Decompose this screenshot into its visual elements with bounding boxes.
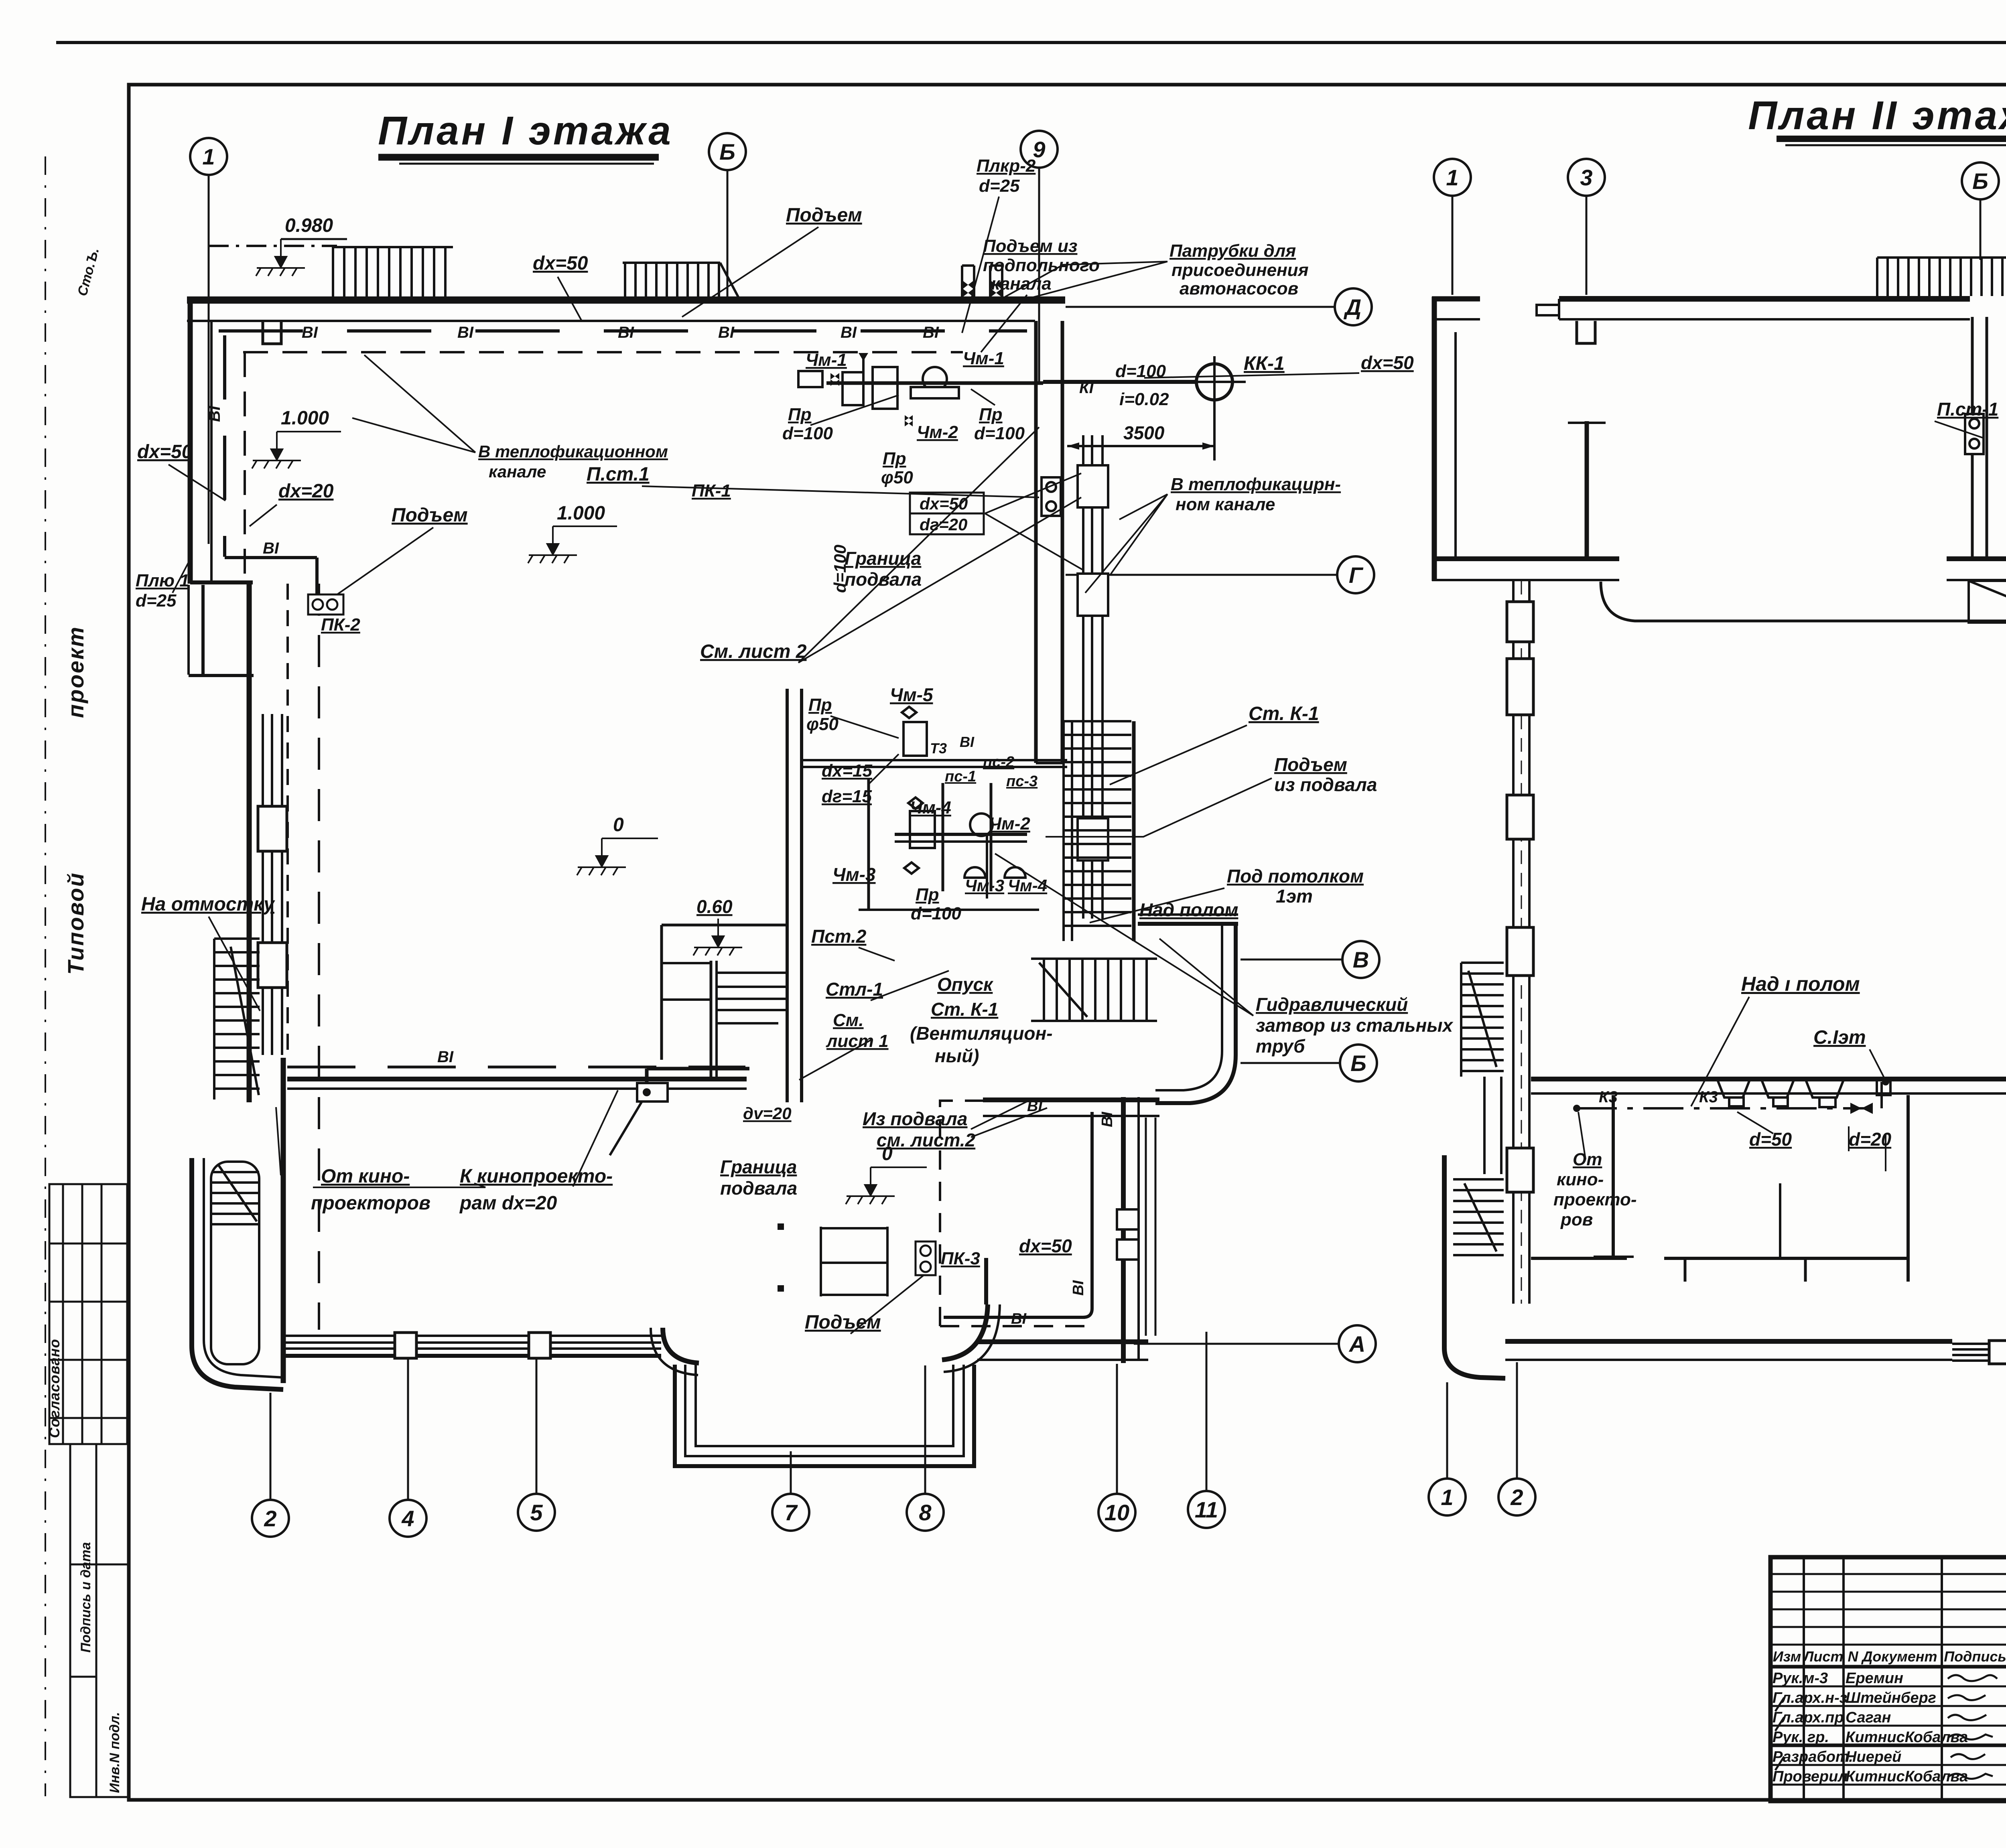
- svg-text:От кино-: От кино-: [321, 1166, 410, 1187]
- pump cluster upper: [798, 353, 1043, 426]
- upper-right block east double wall: [1034, 321, 1038, 763]
- svg-text:дv=20: дv=20: [743, 1104, 792, 1123]
- П.ст.1 fixture: [1042, 477, 1061, 516]
- svg-text:Над полом: Над полом: [1139, 899, 1238, 920]
- svg-text:1: 1: [1446, 165, 1458, 190]
- Т3 riser pipes: [1083, 435, 1102, 919]
- svg-text:Чм-5: Чм-5: [890, 684, 934, 705]
- svg-text:ВІ: ВІ: [1027, 1098, 1043, 1115]
- svg-text:10: 10: [1105, 1500, 1129, 1525]
- ВІ riser left: [223, 335, 226, 557]
- svg-text:Подпись и дата: Подпись и дата: [78, 1542, 93, 1653]
- east facade window column bottom: [1145, 1118, 1147, 1336]
- svg-text:11: 11: [1195, 1497, 1218, 1522]
- svg-text:В теплофикационном: В теплофикационном: [478, 442, 668, 461]
- axis 3 right plan top: [1568, 159, 1605, 196]
- svg-text:Типовой: Типовой: [63, 872, 88, 975]
- svg-text:Подъем: Подъем: [392, 505, 468, 526]
- left table verticals: [1804, 1557, 2006, 1801]
- svg-text:затвор из стальных: затвор из стальных: [1256, 1015, 1454, 1036]
- porch rounded corner right: [942, 1304, 988, 1360]
- svg-text:Гидравлический: Гидравлический: [1256, 994, 1408, 1015]
- signature rows: [1773, 1670, 1968, 1785]
- west wall upper: [1432, 297, 1437, 581]
- west external stair upper flight: [1461, 963, 1504, 1077]
- upper-left room south wall: [1432, 556, 1619, 561]
- svg-text:ров: ров: [1560, 1210, 1593, 1229]
- svg-text:d=100: d=100: [830, 545, 849, 593]
- svg-text:ВІ: ВІ: [960, 734, 975, 750]
- svg-text:Рук.м-3: Рук.м-3: [1773, 1670, 1828, 1687]
- svg-text:Проверил: Проверил: [1773, 1768, 1848, 1785]
- svg-text:φ50: φ50: [881, 468, 913, 487]
- svg-text:Пр: Пр: [788, 405, 812, 424]
- auditorium south wall: [287, 1077, 747, 1081]
- svg-text:пс-1: пс-1: [945, 768, 976, 785]
- big room rounded corner + north boundary: [1601, 582, 2006, 621]
- svg-text:dх=20: dх=20: [278, 481, 334, 502]
- svg-text:d=100: d=100: [974, 424, 1025, 443]
- west external stair side wall: [1444, 1155, 1505, 1378]
- room partitions horizontal: [1531, 1257, 1627, 1260]
- К3 pipe dash-dot: [1577, 1107, 1865, 1110]
- svg-text:рам dх=20: рам dх=20: [459, 1193, 557, 1214]
- svg-text:Подъем: Подъем: [805, 1312, 881, 1333]
- axis labels: [202, 137, 2006, 1531]
- svg-text:Т3: Т3: [930, 740, 947, 757]
- svg-text:d=25: d=25: [979, 176, 1020, 196]
- svg-text:Согласовано: Согласовано: [46, 1339, 63, 1438]
- svg-text:проект: проект: [63, 626, 88, 718]
- svg-text:1: 1: [202, 144, 215, 169]
- partition below mid wall: [1612, 1095, 1615, 1258]
- axis 9 left plan top: [1021, 131, 1058, 168]
- svg-text:Лист: Лист: [1803, 1648, 1844, 1665]
- svg-text:труб: труб: [1256, 1036, 1306, 1057]
- left margin stamp block B: [70, 1444, 129, 1797]
- svg-text:автонасосов: автонасосов: [1180, 279, 1298, 298]
- pump connection stubs above wall: [962, 266, 1002, 298]
- external stair lower flight hatch: [212, 1165, 259, 1224]
- interior wall between auditorium and tech rooms: [786, 689, 789, 1102]
- ВІ pipe bottom of compartment: [647, 1069, 749, 1085]
- svg-text:Подъем: Подъем: [1274, 754, 1347, 775]
- svg-text:Изм: Изм: [1773, 1648, 1801, 1665]
- top wall main segment: [1559, 296, 1970, 302]
- svg-text:Чм-1: Чм-1: [806, 350, 847, 370]
- right rooms north wall: [983, 1097, 1159, 1102]
- svg-text:ПК-3: ПК-3: [941, 1249, 980, 1268]
- svg-text:Над ı полом: Над ı полом: [1741, 973, 1860, 995]
- svg-text:0.980: 0.980: [285, 215, 333, 236]
- svg-text:dх=15: dх=15: [822, 761, 873, 781]
- svg-text:Рук. гр.: Рук. гр.: [1773, 1729, 1829, 1746]
- wall below central: [1947, 556, 2006, 561]
- axis 2 left plan bottom: [252, 1500, 289, 1537]
- svg-text:К кинопроекто-: К кинопроекто-: [460, 1166, 613, 1187]
- top-left exterior wall: [188, 297, 193, 584]
- svg-text:На отмостку: На отмостку: [141, 894, 275, 915]
- svg-text:План I этажа: План I этажа: [378, 108, 673, 153]
- stair hatch top-left: [332, 247, 453, 297]
- svg-text:d=100: d=100: [782, 424, 833, 443]
- svg-text:ном канале: ном канале: [1176, 495, 1275, 514]
- svg-text:Опуск: Опуск: [937, 974, 994, 995]
- svg-text:Ст. К-1: Ст. К-1: [1249, 703, 1319, 724]
- svg-text:КК-1: КК-1: [1244, 353, 1285, 374]
- svg-text:Граница: Граница: [720, 1156, 797, 1177]
- pipes across tech room: [802, 759, 1067, 761]
- top exterior wall: [187, 296, 1065, 304]
- svg-text:присоединения: присоединения: [1172, 260, 1309, 280]
- svg-text:0.60: 0.60: [696, 896, 733, 917]
- sink fixtures on mid wall: [1717, 1079, 1890, 1107]
- svg-text:Инв.N подл.: Инв.N подл.: [107, 1712, 122, 1793]
- axis 11 left plan bottom: [1188, 1491, 1225, 1528]
- stair hatch top-middle: [623, 262, 738, 297]
- stage stair compartment: [662, 925, 786, 1079]
- external stair upper flight: [214, 939, 260, 1099]
- svg-text:i=0.02: i=0.02: [1119, 389, 1169, 409]
- svg-text:См. лист 2: См. лист 2: [700, 641, 807, 662]
- svg-text:0: 0: [613, 814, 624, 836]
- svg-text:Г: Г: [1349, 562, 1364, 588]
- svg-text:Еремин: Еремин: [1846, 1670, 1903, 1687]
- stairwell block with diagonal: [1969, 581, 2006, 623]
- stair mid rails: [1483, 1077, 1486, 1174]
- axis Б right plan top: [1962, 162, 1999, 199]
- svg-text:Плкр-2: Плкр-2: [977, 156, 1036, 176]
- tech fixtures cluster: [895, 707, 1027, 899]
- svg-text:7: 7: [784, 1500, 798, 1525]
- KK-1 well: [1196, 364, 1232, 400]
- svg-text:8: 8: [919, 1500, 932, 1525]
- П.ст-1 fixture: [1965, 414, 1984, 454]
- svg-text:Чм-1: Чм-1: [963, 349, 1004, 368]
- signatures squiggles: [1775, 1675, 1997, 1779]
- axis Б left plan right: [1340, 1045, 1377, 1081]
- west external stair lower flight: [1453, 1179, 1504, 1255]
- svg-text:Штейнберг: Штейнберг: [1846, 1690, 1936, 1706]
- svg-text:К3: К3: [1699, 1088, 1718, 1106]
- svg-text:1: 1: [1441, 1485, 1453, 1510]
- svg-text:Ст. К-1: Ст. К-1: [931, 999, 998, 1020]
- central dividing wall: [1971, 317, 1974, 558]
- svg-text:2: 2: [1510, 1485, 1523, 1510]
- svg-text:ВІ: ВІ: [263, 540, 279, 557]
- bottom window band 1: [1952, 1344, 2006, 1361]
- svg-text:ВІ: ВІ: [457, 324, 474, 341]
- svg-text:От: От: [1573, 1150, 1602, 1169]
- svg-text:Из подвала: Из подвала: [863, 1108, 968, 1129]
- svg-text:dх=50: dх=50: [1361, 352, 1414, 373]
- svg-text:3500: 3500: [1123, 422, 1165, 443]
- svg-text:5: 5: [530, 1500, 543, 1525]
- svg-text:Пр: Пр: [883, 449, 906, 469]
- west wall lower part: [281, 1058, 286, 1383]
- svg-text:N Документ: N Документ: [1848, 1648, 1937, 1665]
- left table rows: [1770, 1574, 2006, 1785]
- svg-text:dх=50: dх=50: [1019, 1235, 1072, 1256]
- svg-text:1эт: 1эт: [1276, 886, 1313, 907]
- top wall notch: [1577, 321, 1595, 343]
- bottom-right wall segment: [977, 1339, 1148, 1344]
- svg-text:Стл-1: Стл-1: [826, 979, 883, 1000]
- svg-text:А: А: [1348, 1331, 1365, 1357]
- axis 1 left plan top: [190, 138, 227, 175]
- axis Г left plan right: [1337, 556, 1374, 593]
- bottom wall left part: [1505, 1339, 1952, 1344]
- svg-text:0: 0: [882, 1143, 893, 1164]
- svg-text:подвала: подвала: [720, 1178, 797, 1199]
- stair right big flight hatch: [1064, 721, 1134, 941]
- axis Б left plan top: [709, 133, 746, 170]
- ВІ pipe loop in right room: [944, 1112, 1092, 1317]
- axis 5 left plan bottom: [518, 1494, 555, 1531]
- right rooms east wall: [1121, 1097, 1126, 1363]
- dashed room boundary bottom right: [940, 1101, 1091, 1326]
- ПК-2 fixture and label: [308, 594, 343, 615]
- svg-text:Патрубки для: Патрубки для: [1169, 241, 1296, 261]
- porch inner railing: [821, 1227, 887, 1296]
- svg-text:пс-3: пс-3: [1006, 773, 1038, 790]
- svg-text:кино-: кино-: [1557, 1170, 1604, 1189]
- front-left room walls: [190, 580, 253, 584]
- axis 1 right plan top: [1434, 159, 1471, 196]
- svg-text:dх=50: dх=50: [137, 441, 193, 463]
- svg-text:Чм-4: Чм-4: [1008, 876, 1047, 895]
- svg-text:Чм-2: Чм-2: [917, 422, 958, 442]
- svg-text:ПК-2: ПК-2: [321, 615, 360, 635]
- svg-text:1.000: 1.000: [557, 503, 605, 524]
- axis А left plan right: [1339, 1325, 1376, 1362]
- svg-text:ВІ: ВІ: [437, 1048, 454, 1066]
- svg-text:ВІ: ВІ: [1011, 1310, 1027, 1327]
- svg-text:Б: Б: [719, 139, 735, 164]
- svg-text:ВІ: ВІ: [206, 406, 223, 422]
- west window band: [1513, 581, 1529, 1304]
- portico notch below top wall: [263, 322, 281, 344]
- svg-text:ВІ: ВІ: [1070, 1280, 1087, 1296]
- svg-text:d=25: d=25: [136, 591, 177, 611]
- svg-text:Граница: Граница: [845, 548, 921, 569]
- svg-text:Плю 1: Плю 1: [136, 571, 189, 590]
- svg-text:ВІ: ВІ: [1099, 1112, 1116, 1127]
- mid wall над I полом: [1531, 1077, 2006, 1081]
- svg-text:В теплофикацирн-: В теплофикацирн-: [1171, 475, 1341, 494]
- K1 sewer line: [1043, 380, 1196, 384]
- title block frame: [1770, 1557, 2006, 1801]
- svg-text:пс-2: пс-2: [983, 754, 1014, 771]
- svg-text:ВІ: ВІ: [718, 324, 735, 341]
- svg-text:П.ст-1: П.ст-1: [1937, 399, 1998, 420]
- svg-text:d=100: d=100: [911, 904, 962, 923]
- svg-text:ВІ: ВІ: [618, 324, 634, 341]
- svg-text:Ниерей: Ниерей: [1846, 1749, 1901, 1765]
- interior partition vertical: [1585, 421, 1589, 559]
- axis Д left plan right: [1335, 288, 1372, 325]
- svg-text:Пр: Пр: [808, 695, 832, 715]
- svg-text:В: В: [1353, 947, 1369, 972]
- porch U steps: [675, 1365, 974, 1466]
- svg-text:П.ст.1: П.ст.1: [587, 464, 650, 485]
- porch rounded corner left: [663, 1328, 699, 1363]
- axis 2 right plan bottom: [1498, 1479, 1535, 1515]
- svg-text:Подъем из: Подъем из: [983, 236, 1077, 256]
- svg-text:Б: Б: [1972, 168, 1988, 194]
- stairwell enclosure walls: [1138, 922, 1238, 926]
- svg-text:проекто-: проекто-: [1553, 1190, 1636, 1209]
- axis 7 left plan bottom: [772, 1494, 809, 1531]
- svg-text:Б: Б: [1350, 1051, 1366, 1076]
- svg-text:КІ: КІ: [1079, 379, 1094, 397]
- svg-text:ный): ный): [935, 1045, 979, 1066]
- svg-text:dг=20: dг=20: [920, 515, 967, 534]
- sheet left dash-dot margin line: [45, 156, 46, 1796]
- west wall of auditorium: [247, 582, 252, 1102]
- boxed dx=50 dг=20: [910, 493, 984, 534]
- axis 4 left plan bottom: [390, 1500, 426, 1537]
- svg-text:d=100: d=100: [1115, 361, 1166, 381]
- external stair lower U-wall: [192, 1158, 283, 1390]
- svg-text:dг=15: dг=15: [822, 787, 872, 806]
- axis 1 right plan bottom: [1429, 1479, 1466, 1515]
- ВІ labels on top main: [302, 324, 939, 341]
- svg-text:подпольного: подпольного: [983, 256, 1100, 275]
- svg-text:Чм-3: Чм-3: [832, 864, 876, 885]
- svg-text:ВІ: ВІ: [302, 324, 318, 341]
- svg-text:Пст.2: Пст.2: [811, 926, 867, 947]
- svg-text:Подпись: Подпись: [1944, 1648, 2006, 1665]
- svg-text:проекторов: проекторов: [311, 1193, 430, 1214]
- ВІ water main along top wall: [219, 329, 1027, 333]
- top stair hatch: [1877, 258, 2006, 296]
- svg-text:С.Iэт: С.Iэт: [1813, 1027, 1866, 1048]
- svg-text:(Вентиляцион-: (Вентиляцион-: [910, 1023, 1053, 1044]
- axis 8 left plan bottom: [907, 1494, 944, 1531]
- dimension 3500: [1067, 445, 1214, 447]
- svg-text:Чм-4: Чм-4: [910, 798, 951, 818]
- title right: План II этажа: [1748, 93, 2006, 145]
- title left: План I этажа: [378, 108, 673, 164]
- stair lower flight hatch: [1031, 959, 1157, 1021]
- svg-text:ВІ: ВІ: [841, 324, 857, 341]
- svg-text:ВІ: ВІ: [923, 324, 939, 341]
- ВІ lower run to ПК-2: [225, 556, 317, 559]
- svg-text:Д: Д: [1344, 294, 1361, 320]
- svg-text:К3: К3: [1599, 1088, 1618, 1106]
- basement boundary dashed left: [244, 352, 246, 581]
- svg-text:канале: канале: [489, 462, 546, 481]
- ВІ pipe along south wall: [287, 1066, 745, 1069]
- left margin stamp block A: [49, 1184, 127, 1444]
- svg-text:4: 4: [401, 1506, 414, 1531]
- svg-text:Чм-3: Чм-3: [965, 876, 1004, 895]
- top wall left segment: [1432, 296, 1480, 302]
- svg-text:Подъем: Подъем: [786, 205, 862, 226]
- svg-text:Пр: Пр: [916, 885, 939, 905]
- svg-text:Пр: Пр: [979, 405, 1003, 424]
- sheet outer top border: [56, 41, 2006, 44]
- svg-text:Чм-2: Чм-2: [989, 814, 1030, 834]
- basement boundary dashed top: [243, 351, 963, 353]
- ПК-3 fixture and label: [916, 1241, 936, 1275]
- svg-text:Саган: Саган: [1846, 1709, 1891, 1726]
- axis 10 left plan bottom: [1098, 1494, 1135, 1531]
- axis dash-dot to level mark top-left: [209, 245, 337, 247]
- svg-text:См.: См.: [833, 1010, 864, 1030]
- svg-text:План II этажа: План II этажа: [1748, 93, 2006, 138]
- svg-text:Под потолком: Под потолком: [1227, 866, 1364, 886]
- west window band: [263, 714, 282, 1055]
- svg-text:2: 2: [264, 1506, 276, 1531]
- svg-text:1.000: 1.000: [281, 408, 329, 429]
- svg-text:из подвала: из подвала: [1274, 774, 1377, 795]
- svg-text:dх=50: dх=50: [533, 253, 588, 274]
- svg-text:ПК-1: ПК-1: [692, 481, 731, 501]
- tech room partitions: [859, 778, 1039, 910]
- svg-text:3: 3: [1580, 165, 1592, 190]
- axis В left plan right: [1342, 941, 1379, 978]
- south lobby wall with windows: [286, 1336, 661, 1356]
